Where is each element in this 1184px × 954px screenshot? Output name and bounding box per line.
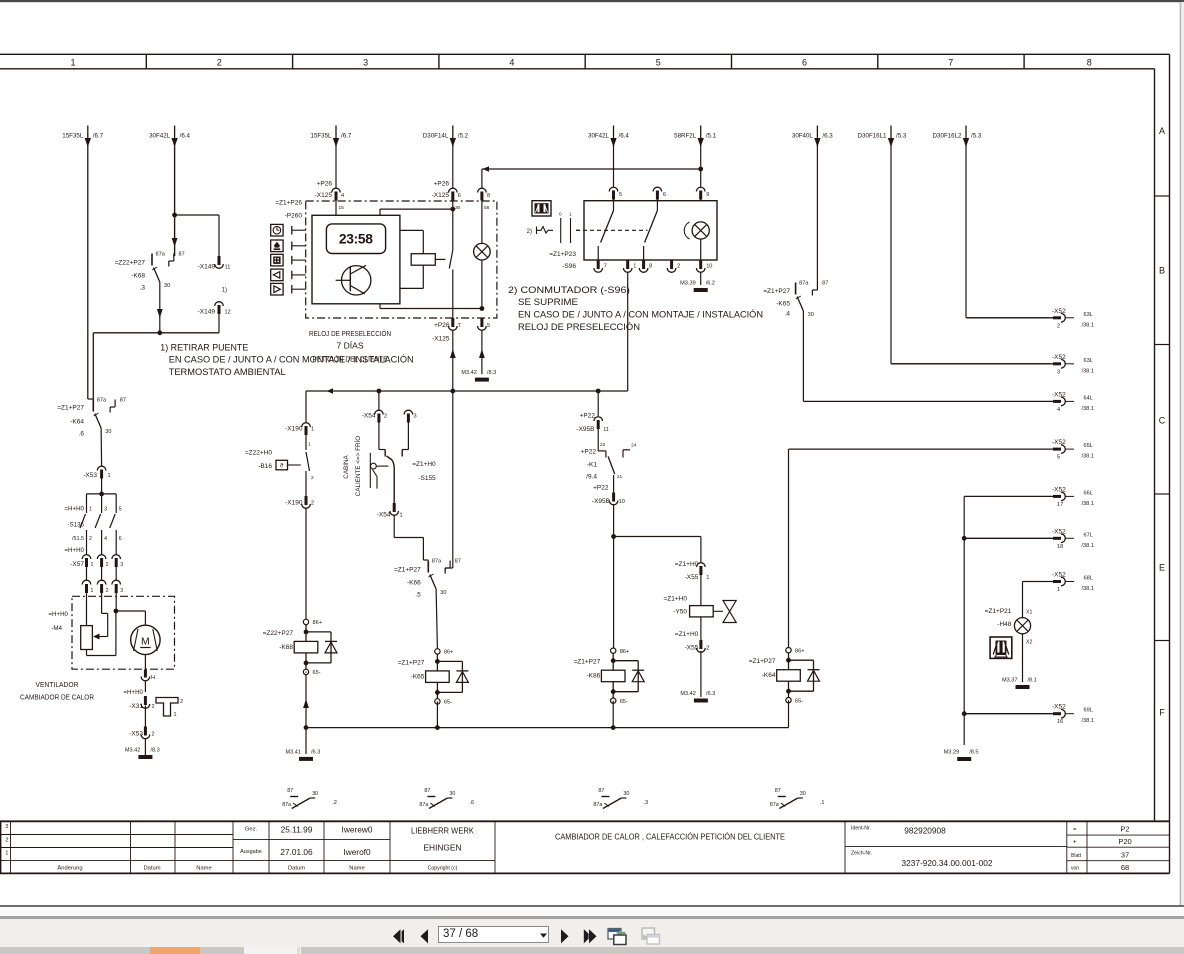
svg-text:2: 2 bbox=[1057, 323, 1060, 329]
svg-text:RELOJ DE PRESELECCIÓN: RELOJ DE PRESELECCIÓN bbox=[518, 322, 640, 333]
svg-text:17: 17 bbox=[1057, 502, 1063, 508]
note 2 text bbox=[508, 285, 763, 333]
svg-text:22: 22 bbox=[600, 442, 606, 448]
clock main box bbox=[312, 215, 400, 303]
svg-text:4: 4 bbox=[341, 193, 344, 199]
thermostat -B16 =Z22+H0 bbox=[245, 446, 314, 481]
svg-text:TERMOSTATO AMBIENTAL: TERMOSTATO AMBIENTAL bbox=[169, 367, 286, 378]
svg-text:8: 8 bbox=[1087, 57, 1092, 67]
svg-text:-X52: -X52 bbox=[1052, 572, 1066, 579]
svg-text:+P22: +P22 bbox=[581, 449, 597, 456]
svg-text:7: 7 bbox=[604, 264, 607, 270]
bottom scroll strip bbox=[0, 947, 1184, 954]
svg-text:Ident-Nr.: Ident-Nr. bbox=[851, 826, 871, 832]
svg-text:87: 87 bbox=[775, 788, 781, 794]
svg-text:=Z1+P27: =Z1+P27 bbox=[394, 567, 421, 574]
clock display 23:58 bbox=[326, 224, 385, 254]
svg-text:5: 5 bbox=[656, 57, 661, 67]
svg-text:1: 1 bbox=[91, 588, 94, 594]
svg-text:/51.5: /51.5 bbox=[72, 536, 84, 542]
svg-text:/38.1: /38.1 bbox=[1082, 543, 1094, 549]
svg-text:-K64: -K64 bbox=[762, 672, 776, 679]
svg-text:Iwerew0: Iwerew0 bbox=[342, 825, 373, 835]
supply feed 30F40L bbox=[792, 126, 833, 148]
title block bbox=[0, 821, 1170, 873]
svg-text:3237-920.34.00.001-002: 3237-920.34.00.001-002 bbox=[902, 858, 993, 868]
svg-text:-K68: -K68 bbox=[131, 273, 145, 280]
svg-text:M3.39: M3.39 bbox=[680, 281, 696, 287]
svg-text:PETICIÓN DEL CLIENTE: PETICIÓN DEL CLIENTE bbox=[313, 355, 388, 364]
svg-text:2: 2 bbox=[384, 414, 387, 420]
connector =Z1+H0 -X55 pin 2 bbox=[675, 631, 710, 697]
last page button bbox=[582, 926, 600, 947]
svg-text:-X95B: -X95B bbox=[592, 498, 610, 505]
supply feed 30F42L bbox=[149, 126, 190, 148]
svg-text:H: H bbox=[151, 675, 155, 681]
svg-text:.3: .3 bbox=[140, 285, 146, 292]
svg-text:2: 2 bbox=[677, 264, 680, 270]
svg-text:-X125: -X125 bbox=[432, 336, 450, 343]
svg-text:=Z22+P27: =Z22+P27 bbox=[115, 260, 146, 267]
node K86/Y50 split bbox=[611, 534, 701, 648]
svg-text:=Z1+P26: =Z1+P26 bbox=[275, 200, 302, 207]
wire D30F16L1 to X52-3 bbox=[891, 147, 1049, 364]
svg-text:87: 87 bbox=[287, 788, 293, 794]
svg-text:-X52: -X52 bbox=[1052, 391, 1066, 398]
svg-text:2: 2 bbox=[311, 475, 314, 481]
svg-text:/5.1: /5.1 bbox=[706, 133, 717, 140]
svg-text:=Z1+P27: =Z1+P27 bbox=[763, 288, 790, 295]
svg-text:69L: 69L bbox=[1084, 708, 1093, 714]
svg-text:87a: 87a bbox=[432, 559, 442, 565]
svg-text:CABINA: CABINA bbox=[343, 454, 350, 478]
clock bottom notch wire bbox=[380, 304, 484, 311]
wire 30F40L down to K65 contact bbox=[816, 147, 818, 283]
svg-text:86+: 86+ bbox=[313, 620, 323, 626]
svg-text:.6: .6 bbox=[79, 431, 85, 438]
svg-text:63L: 63L bbox=[1084, 358, 1093, 364]
svg-text:D30F16L2: D30F16L2 bbox=[933, 133, 962, 140]
S96 pin1 wire to bus bbox=[627, 273, 629, 392]
svg-text:-S96: -S96 bbox=[562, 263, 576, 270]
svg-text:3: 3 bbox=[363, 57, 368, 67]
svg-text:15: 15 bbox=[339, 205, 345, 211]
svg-text:/6.7: /6.7 bbox=[93, 133, 104, 140]
connector -X52 pin 17 net 66L bbox=[964, 486, 1094, 508]
connector -X52 pin 18 net 67L bbox=[964, 528, 1094, 550]
connector -X54 pin 3 bbox=[404, 410, 417, 449]
svg-text:LIEBHERR WERK: LIEBHERR WERK bbox=[411, 826, 474, 836]
relay coil -K64 =Z1+P27 with diode bbox=[749, 648, 820, 728]
connector -X149 pin 12 bbox=[198, 302, 231, 333]
svg-text:1: 1 bbox=[91, 562, 94, 568]
svg-text:2) CONMUTADOR (-S96): 2) CONMUTADOR (-S96) bbox=[508, 285, 630, 296]
svg-text:-K65: -K65 bbox=[776, 301, 790, 308]
switch -S155 =Z1+H0 cab lever bbox=[370, 450, 436, 504]
svg-text:-X57: -X57 bbox=[70, 561, 84, 568]
heater element symbol bbox=[156, 698, 183, 719]
connector -X52 pin 1 net 68L bbox=[1023, 572, 1094, 594]
supply feed 30F42L bbox=[588, 126, 629, 148]
previous view icon bbox=[606, 926, 628, 947]
connector -X125 pin 5 bbox=[478, 318, 491, 374]
svg-text:E: E bbox=[1159, 562, 1165, 572]
svg-text:1: 1 bbox=[706, 575, 709, 581]
svg-text:65-: 65- bbox=[313, 670, 321, 676]
svg-text:2: 2 bbox=[152, 732, 155, 738]
svg-text:ϑ: ϑ bbox=[280, 463, 284, 470]
svg-text:/6.3: /6.3 bbox=[706, 691, 715, 697]
note 1 text bbox=[160, 342, 414, 378]
svg-text:1: 1 bbox=[311, 427, 314, 433]
svg-text:CAMBIADOR DE CALOR , CALEFACCI: CAMBIADOR DE CALOR , CALEFACCIÓN PETICIÓ… bbox=[555, 832, 785, 842]
svg-text:87: 87 bbox=[424, 788, 430, 794]
S96 top pins 5 6 9 bbox=[609, 147, 709, 201]
svg-text:3: 3 bbox=[120, 562, 123, 568]
svg-text:2: 2 bbox=[106, 588, 109, 594]
next page button bbox=[558, 926, 572, 947]
svg-text:15F35L: 15F35L bbox=[311, 133, 333, 140]
svg-text:1: 1 bbox=[400, 513, 403, 519]
svg-text:30: 30 bbox=[164, 283, 170, 289]
svg-text:Datum: Datum bbox=[143, 866, 160, 872]
svg-text:30: 30 bbox=[623, 791, 629, 797]
B16 contact blade bbox=[305, 446, 307, 450]
supply feed 15F35L bbox=[62, 126, 103, 148]
svg-text:4: 4 bbox=[1057, 407, 1060, 413]
supply feed D30F14L bbox=[423, 126, 469, 148]
svg-text:3: 3 bbox=[104, 507, 107, 513]
lamp -H48 =Z1+P21 bbox=[985, 582, 1033, 683]
switch -S96 box bbox=[584, 201, 717, 260]
wire bus to X95B-11 bbox=[597, 391, 599, 416]
wire bus to X54-2 bbox=[378, 391, 380, 410]
svg-text:87a: 87a bbox=[770, 802, 779, 808]
manual actuator icon bbox=[532, 201, 551, 216]
svg-text:-X149: -X149 bbox=[198, 309, 216, 316]
svg-text:86+: 86+ bbox=[620, 649, 630, 655]
svg-text:Zeich-Nr.: Zeich-Nr. bbox=[851, 851, 872, 857]
svg-text:-X55: -X55 bbox=[685, 574, 699, 581]
svg-text:2: 2 bbox=[706, 646, 709, 652]
footer contact reference .1 bbox=[770, 788, 825, 809]
first page button bbox=[390, 926, 408, 947]
relay coil -K68 =Z22+P27 with diode bbox=[263, 619, 337, 727]
frame letters column line bbox=[1154, 69, 1156, 822]
svg-text:=Z22+P27: =Z22+P27 bbox=[263, 630, 294, 637]
svg-text:.6: .6 bbox=[469, 800, 474, 806]
svg-text:/6.4: /6.4 bbox=[180, 133, 191, 140]
svg-text:Änderung: Änderung bbox=[57, 865, 82, 872]
footer contact reference .3 bbox=[593, 788, 648, 809]
prev page button bbox=[417, 926, 431, 947]
svg-text:1: 1 bbox=[89, 507, 92, 513]
svg-text:=Z1+P27: =Z1+P27 bbox=[573, 659, 600, 666]
svg-text:1: 1 bbox=[5, 851, 8, 857]
svg-text:7: 7 bbox=[948, 57, 953, 67]
svg-text:2: 2 bbox=[5, 837, 8, 843]
clock icon buttons bbox=[271, 224, 306, 295]
svg-text:6: 6 bbox=[663, 192, 666, 198]
svg-text:-K66: -K66 bbox=[407, 580, 421, 587]
svg-text:/38.1: /38.1 bbox=[1082, 718, 1094, 724]
svg-text:30: 30 bbox=[455, 205, 461, 211]
svg-text:1: 1 bbox=[174, 712, 177, 718]
svg-text:10: 10 bbox=[706, 264, 712, 270]
footer contact reference .6 bbox=[419, 788, 474, 809]
svg-text:5: 5 bbox=[119, 507, 122, 513]
viewer right strip bbox=[1180, 2, 1184, 905]
svg-text:/38.1: /38.1 bbox=[1082, 586, 1094, 592]
S96 actuator symbol bbox=[527, 212, 584, 271]
svg-text:63L: 63L bbox=[1084, 312, 1093, 318]
toolbar background bbox=[0, 919, 1184, 946]
svg-text:1: 1 bbox=[308, 442, 311, 448]
svg-text:-X190: -X190 bbox=[285, 426, 303, 433]
svg-text:21: 21 bbox=[617, 474, 623, 480]
svg-text:87a: 87a bbox=[593, 802, 602, 808]
svg-text:/38.1: /38.1 bbox=[1082, 322, 1094, 328]
svg-text:=Z1+P27: =Z1+P27 bbox=[749, 658, 776, 665]
connector -X52 pin 4 net 64L bbox=[803, 391, 1094, 413]
svg-text:/8.3: /8.3 bbox=[487, 370, 496, 376]
clock captions bbox=[309, 329, 391, 363]
svg-text:=H+H0: =H+H0 bbox=[64, 547, 84, 554]
svg-text:-X52: -X52 bbox=[1052, 308, 1066, 315]
svg-text:-K86: -K86 bbox=[586, 673, 600, 680]
svg-text:58RF2L: 58RF2L bbox=[674, 133, 697, 140]
svg-text:1: 1 bbox=[70, 57, 75, 67]
svg-text:7 DÍAS: 7 DÍAS bbox=[337, 342, 364, 351]
svg-text:+P22: +P22 bbox=[580, 413, 596, 420]
svg-text:87a: 87a bbox=[419, 802, 428, 808]
svg-text:68: 68 bbox=[1121, 863, 1129, 872]
svg-text:30F42L: 30F42L bbox=[149, 133, 171, 140]
svg-text:86+: 86+ bbox=[444, 650, 454, 656]
svg-text:11: 11 bbox=[225, 265, 231, 271]
svg-text:X1: X1 bbox=[1026, 610, 1032, 616]
svg-text:-Y50: -Y50 bbox=[673, 609, 687, 616]
valve -Y50 =Z1+H0 bbox=[664, 596, 737, 641]
S96 indicator lamp bbox=[684, 222, 709, 260]
connector -X53 pin 2 bbox=[129, 727, 154, 756]
svg-text:-K1: -K1 bbox=[587, 462, 598, 469]
connector -X52 pin 3 net 63L bbox=[891, 354, 1094, 376]
svg-text:-X95B: -X95B bbox=[576, 426, 594, 433]
wire K64 output bbox=[100, 428, 103, 467]
svg-text:D30F14L: D30F14L bbox=[423, 133, 449, 140]
svg-text:30: 30 bbox=[449, 791, 455, 797]
svg-text:=Z1+H0: =Z1+H0 bbox=[664, 596, 688, 603]
svg-text:/6.7: /6.7 bbox=[341, 133, 352, 140]
svg-text:M3.29: M3.29 bbox=[944, 750, 960, 756]
svg-text:6: 6 bbox=[119, 536, 122, 542]
svg-text:+: + bbox=[1073, 840, 1077, 846]
svg-text:Ausgabe: Ausgabe bbox=[240, 849, 262, 855]
bus wire y=332.8 bbox=[93, 330, 219, 399]
ground chain right bbox=[962, 496, 967, 745]
wire bus to K66 87 bbox=[445, 391, 453, 574]
svg-text:1: 1 bbox=[1057, 587, 1060, 593]
svg-text:M: M bbox=[141, 636, 150, 648]
svg-text:/5.3: /5.3 bbox=[971, 133, 982, 140]
column ticks and numbers bbox=[70, 54, 1091, 69]
svg-text:+P22: +P22 bbox=[593, 485, 609, 492]
svg-text:Copyright (c): Copyright (c) bbox=[428, 866, 458, 872]
svg-text:30F40L: 30F40L bbox=[792, 133, 814, 140]
clock relay coil bracket bbox=[380, 197, 455, 319]
supply feed D30F16L1 bbox=[858, 126, 907, 148]
svg-text:+P26: +P26 bbox=[317, 181, 333, 188]
svg-text:10: 10 bbox=[619, 499, 625, 505]
svg-text:/9.4: /9.4 bbox=[586, 474, 597, 481]
svg-text:87: 87 bbox=[120, 398, 126, 404]
ground M3.39 under S96 bbox=[680, 273, 715, 293]
wire 15F35L down bbox=[87, 147, 89, 399]
svg-text:von: von bbox=[1071, 866, 1079, 872]
svg-text:.3: .3 bbox=[643, 800, 648, 806]
svg-text:/38.1: /38.1 bbox=[1082, 454, 1094, 460]
contact -K1 +P22 changeover bbox=[581, 443, 637, 481]
svg-text:-B16: -B16 bbox=[258, 463, 272, 470]
cab captions vertical bbox=[343, 436, 362, 496]
clock transistor bbox=[336, 265, 371, 295]
connector +P26 -X125 pin 6 bbox=[432, 147, 461, 211]
connector -X31 pin 2 =H+H0 bbox=[123, 689, 154, 727]
next view icon (disabled) bbox=[640, 926, 664, 947]
svg-text:25.11.99: 25.11.99 bbox=[281, 825, 313, 835]
wire K68 output to bus bbox=[159, 282, 161, 333]
svg-text:Name: Name bbox=[349, 866, 364, 872]
svg-text:.2: .2 bbox=[332, 800, 337, 806]
svg-text:=Z1+P27: =Z1+P27 bbox=[57, 405, 84, 412]
wire 30F42L column bbox=[172, 147, 178, 256]
svg-text:30: 30 bbox=[808, 312, 814, 318]
svg-text:M3.42: M3.42 bbox=[680, 691, 696, 697]
svg-text:87a: 87a bbox=[97, 398, 107, 404]
svg-text:/6.3: /6.3 bbox=[822, 133, 833, 140]
svg-text:68L: 68L bbox=[1084, 576, 1093, 582]
svg-text:F: F bbox=[1159, 707, 1165, 717]
connector -X54 pin 2 bbox=[362, 410, 387, 449]
S96 dashed coupling bbox=[576, 229, 648, 231]
svg-text:CALIENTE <=> FRÍO: CALIENTE <=> FRÍO bbox=[353, 436, 362, 496]
svg-text:VENTILADOR: VENTILADOR bbox=[36, 682, 79, 689]
connector -X52 pin 5 net 65L bbox=[789, 439, 1094, 461]
svg-text:-X53: -X53 bbox=[83, 472, 97, 479]
svg-text:2: 2 bbox=[180, 699, 183, 705]
svg-text:Gez.: Gez. bbox=[245, 827, 258, 833]
svg-text:4: 4 bbox=[509, 57, 514, 67]
connector +P26 -X125 pin 4 bbox=[315, 147, 345, 215]
contact K64 =Z1+P27 bbox=[57, 398, 126, 438]
svg-text:87: 87 bbox=[822, 281, 828, 287]
supply feed 58RF2L bbox=[674, 126, 716, 148]
svg-text:Blatt: Blatt bbox=[1071, 853, 1082, 859]
svg-text:87a: 87a bbox=[799, 281, 809, 287]
svg-text:=: = bbox=[1073, 827, 1077, 833]
wire bus to X190 bbox=[305, 391, 307, 422]
svg-text:/6.2: /6.2 bbox=[706, 281, 715, 287]
svg-text:3: 3 bbox=[120, 588, 123, 594]
svg-text:23:58: 23:58 bbox=[339, 232, 373, 247]
svg-text:=H+H0: =H+H0 bbox=[48, 611, 68, 618]
svg-text:2: 2 bbox=[106, 562, 109, 568]
svg-text:-S155: -S155 bbox=[418, 475, 436, 482]
S96 bottom pins bbox=[594, 260, 713, 272]
svg-text:87: 87 bbox=[598, 788, 604, 794]
svg-text:=Z1+P21: =Z1+P21 bbox=[985, 608, 1012, 615]
svg-text:87a: 87a bbox=[282, 802, 291, 808]
connector -X54 pin 1 bbox=[377, 503, 424, 560]
svg-text:Iwerof0: Iwerof0 bbox=[343, 847, 371, 857]
svg-text:SE SUPRIME: SE SUPRIME bbox=[518, 297, 578, 308]
svg-text:C: C bbox=[1159, 415, 1166, 425]
connector =Z1+H0 -X55 pin 1 bbox=[675, 561, 710, 606]
svg-text:8: 8 bbox=[649, 264, 652, 270]
svg-text:-X149: -X149 bbox=[198, 264, 216, 271]
svg-text:982920908: 982920908 bbox=[904, 826, 946, 836]
svg-text:M3.37: M3.37 bbox=[1002, 678, 1018, 684]
viewer bottom boundary bbox=[0, 905, 1184, 907]
svg-text:-X52: -X52 bbox=[1052, 354, 1066, 361]
svg-text:/8.3: /8.3 bbox=[150, 748, 159, 754]
bus wire y=391 bbox=[306, 388, 628, 394]
node split to S136 bbox=[87, 492, 117, 509]
svg-text:-X125: -X125 bbox=[315, 192, 333, 199]
svg-text:/38.1: /38.1 bbox=[1082, 501, 1094, 507]
svg-text:2): 2) bbox=[527, 229, 532, 235]
svg-text:12: 12 bbox=[225, 310, 231, 316]
svg-text:2: 2 bbox=[152, 704, 155, 710]
connector -X125 pin 8 bbox=[478, 188, 491, 211]
connector +P22 -X95B pin 11 bbox=[576, 413, 609, 449]
S96 internal contacts bbox=[598, 201, 657, 260]
svg-text:3: 3 bbox=[1057, 369, 1060, 375]
cab heater icon bbox=[990, 637, 1012, 658]
svg-text:/6.3: /6.3 bbox=[311, 749, 320, 755]
svg-text:87: 87 bbox=[455, 559, 461, 565]
svg-text:=Z1+H0: =Z1+H0 bbox=[675, 561, 699, 568]
page number combo box bbox=[438, 926, 549, 943]
connector -X53 pin 1 bbox=[83, 466, 110, 494]
svg-text:2: 2 bbox=[89, 536, 92, 542]
svg-text:=Z1+P27: =Z1+P27 bbox=[398, 659, 425, 666]
svg-text:M3.41: M3.41 bbox=[285, 749, 301, 755]
svg-text:=Z1+H0: =Z1+H0 bbox=[412, 461, 436, 468]
svg-text:-X52: -X52 bbox=[1052, 704, 1066, 711]
svg-text:30: 30 bbox=[105, 429, 111, 435]
svg-text:D30F16L1: D30F16L1 bbox=[858, 133, 887, 140]
connector -X52 pin 16 net 69L bbox=[964, 704, 1094, 726]
frame right outer line bbox=[1169, 54, 1171, 873]
svg-text:27.01.06: 27.01.06 bbox=[280, 847, 313, 857]
svg-text:-K68: -K68 bbox=[279, 644, 293, 651]
svg-text:CAMBIADOR DE CALOR: CAMBIADOR DE CALOR bbox=[20, 695, 94, 702]
svg-text:-M4: -M4 bbox=[51, 625, 62, 632]
contact K66 =Z1+P27 bbox=[394, 559, 461, 649]
svg-text:=Z1+P23: =Z1+P23 bbox=[549, 251, 576, 258]
wiper arrow from leg2 bbox=[93, 611, 108, 640]
svg-text:15F35L: 15F35L bbox=[62, 133, 84, 140]
mating connector row pins 1 2 3 bbox=[82, 580, 123, 611]
svg-text:37: 37 bbox=[1121, 851, 1129, 860]
svg-text:18: 18 bbox=[1057, 544, 1063, 550]
svg-text:-X54: -X54 bbox=[362, 413, 376, 420]
svg-text:87: 87 bbox=[179, 252, 185, 258]
svg-text:T: T bbox=[458, 323, 462, 329]
svg-text:5: 5 bbox=[1057, 455, 1060, 461]
